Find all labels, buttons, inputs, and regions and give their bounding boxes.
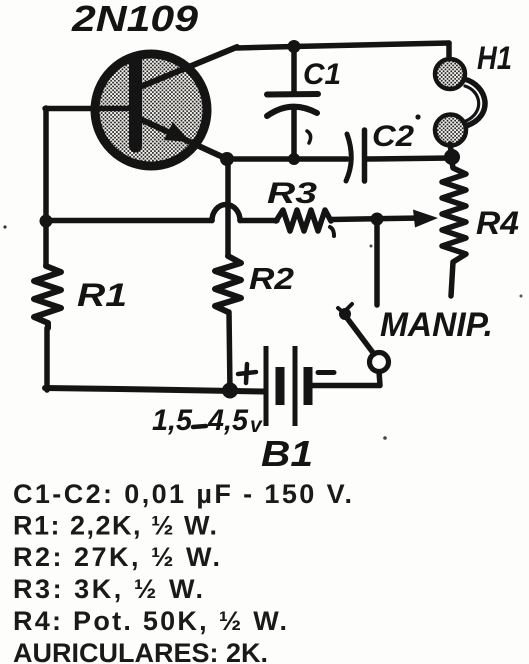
svg-text:C1-C2: 0,01 µF - 150 V.: C1-C2: 0,01 µF - 150 V. (13, 479, 352, 509)
svg-text:R4: R4 (476, 205, 519, 241)
svg-text:MANIP.: MANIP. (380, 306, 493, 344)
node C1 bottom (288, 153, 300, 165)
svg-text:R3: R3 (267, 177, 317, 210)
stray speck right of R4 (520, 295, 523, 298)
svg-text:AURICULARES: 2K.: AURICULARES: 2K. (13, 638, 268, 664)
svg-text:2N109: 2N109 (71, 0, 198, 39)
wire C1 lower branch (291, 109, 297, 159)
svg-text:R2: 27K, ½ W.: R2: 27K, ½ W. (13, 542, 220, 572)
resistor R2 (215, 256, 241, 312)
transistor Q1 emitter lead (140, 119, 227, 159)
node manip branch (371, 213, 384, 226)
svg-text:C2: C2 (372, 120, 414, 153)
svg-text:R3: 3K, ½ W.: R3: 3K, ½ W. (13, 574, 203, 604)
wire battery to switch (312, 371, 380, 386)
wire R3 to R4 wiper (331, 218, 422, 220)
transistor Q1 collector lead (140, 47, 237, 87)
battery B1 short plate 2 (304, 367, 313, 405)
resistor R3 (276, 210, 331, 231)
wire mid rail left (46, 218, 212, 224)
wire manip vertical (374, 219, 380, 305)
switch lever tip blob (339, 308, 351, 320)
wire R2 vertical upper (225, 159, 231, 256)
wire left vertical lower (44, 328, 50, 390)
battery B1 long plate 2 (293, 346, 298, 426)
stray speck below battery (383, 436, 387, 440)
stray tick after R3 (330, 227, 334, 236)
svg-text:v: v (250, 414, 263, 437)
switch lever tip stub (338, 304, 352, 314)
wire C2 to headphone node (367, 158, 452, 159)
wire left vertical upper (43, 108, 49, 266)
parts list (13, 479, 352, 664)
headphone H1 bottom earpiece (435, 115, 466, 146)
wire top rail (237, 43, 449, 48)
node top rail / C1 (288, 40, 301, 53)
capacitor C1 top plate (267, 91, 318, 98)
svg-text:H1: H1 (477, 40, 512, 76)
capacitor C1 bottom plate (267, 107, 317, 116)
wire bottom rail (45, 388, 264, 392)
stray comma mark (307, 131, 311, 143)
switch pivot circle (370, 353, 389, 372)
stray apostrophe dot (415, 114, 420, 119)
node R2 bottom (222, 383, 238, 399)
svg-text:B1: B1 (261, 433, 313, 474)
svg-text:4,5: 4,5 (207, 404, 249, 437)
R4 wiper arrowhead (413, 210, 438, 228)
stray speck top of manip wire (370, 245, 373, 248)
transistor Q1 body (95, 54, 207, 166)
svg-text:R4: Pot. 50K, ½ W.: R4: Pot. 50K, ½ W. (13, 606, 287, 636)
svg-text:R1: 2,2K, ½ W.: R1: 2,2K, ½ W. (13, 511, 217, 541)
transistor Q1 base bar (129, 60, 142, 146)
capacitor C2 right plate (362, 130, 368, 181)
minus sign (318, 370, 334, 375)
resistor R1 (34, 266, 61, 328)
wire base lead (45, 106, 134, 112)
wire crossover hop (212, 205, 240, 221)
wire emitter rail (227, 156, 347, 162)
headphone H1 headband (464, 79, 485, 126)
switch lever (347, 318, 374, 354)
svg-text:R2: R2 (249, 261, 294, 296)
svg-text:R1: R1 (77, 277, 127, 313)
node emitter (220, 152, 234, 166)
battery B1 long plate 1 (264, 346, 269, 426)
wire earpiece to node (450, 144, 452, 157)
wire hop to R3 (240, 218, 277, 224)
svg-text:1,5: 1,5 (152, 404, 193, 437)
wire C1 upper branch (291, 46, 297, 93)
plus sign (238, 364, 256, 383)
wire R2 vertical lower (229, 312, 230, 391)
potentiometer R4 (442, 162, 466, 296)
svg-text:C1: C1 (303, 58, 341, 91)
stray speck left edge (3, 225, 6, 228)
wire headphone drop (446, 43, 452, 59)
node headphone / R4 (444, 149, 460, 165)
capacitor C2 left plate (346, 134, 351, 181)
headphone H1 top earpiece (435, 59, 465, 89)
battery B1 short plate 1 (276, 367, 285, 405)
transistor Q1 emitter arrowhead (164, 122, 190, 142)
node base rail (40, 215, 53, 228)
